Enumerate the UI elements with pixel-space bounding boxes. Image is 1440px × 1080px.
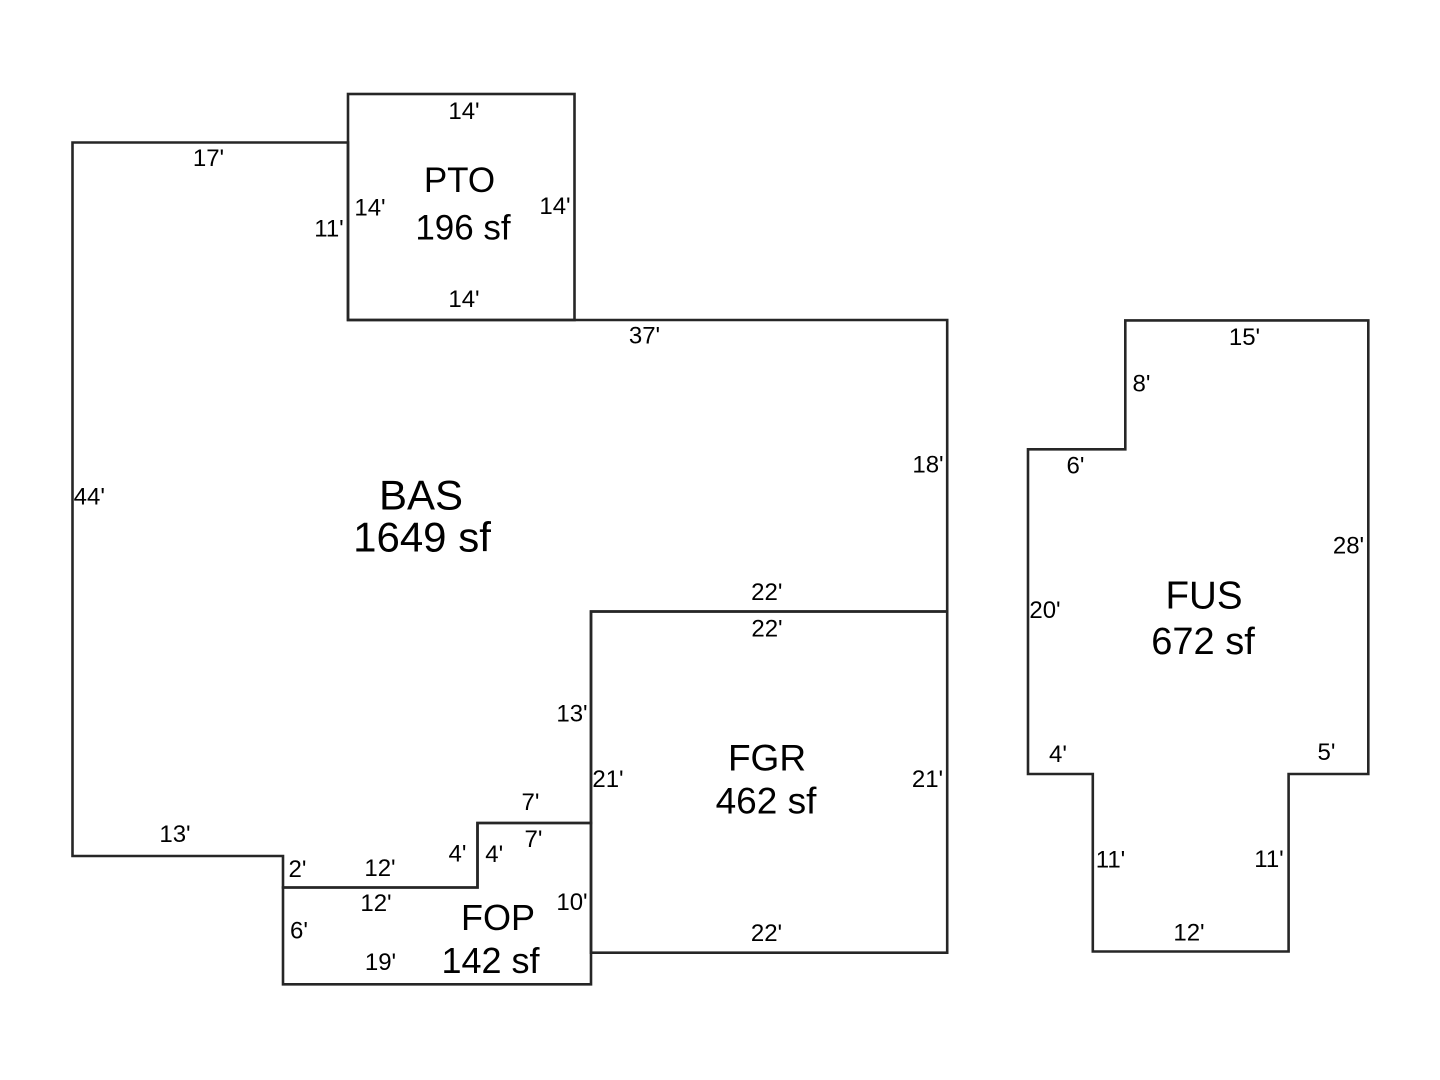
svg-text:13': 13' [556,701,587,728]
svg-text:PTO: PTO [424,161,495,200]
svg-text:196 sf: 196 sf [415,209,511,248]
svg-text:15': 15' [1229,324,1260,351]
svg-text:14': 14' [448,286,479,313]
svg-text:21': 21' [592,766,623,793]
svg-text:17': 17' [193,145,224,172]
svg-text:12': 12' [364,855,395,882]
svg-text:142 sf: 142 sf [441,940,540,981]
PTO area outline [348,94,575,320]
svg-text:8': 8' [1133,371,1151,398]
svg-text:22': 22' [751,579,782,606]
svg-text:FUS: FUS [1166,575,1243,618]
svg-text:FGR: FGR [728,738,806,779]
BAS area outline [73,143,948,888]
svg-text:462 sf: 462 sf [716,781,818,822]
svg-text:37': 37' [629,323,660,350]
svg-text:5': 5' [1318,739,1336,766]
FGR area outline [591,612,947,953]
svg-text:FOP: FOP [461,897,535,938]
svg-text:672 sf: 672 sf [1151,621,1255,663]
svg-text:11': 11' [314,216,344,243]
svg-text:13': 13' [159,821,190,848]
svg-text:22': 22' [751,920,782,947]
svg-text:11': 11' [1096,847,1126,874]
svg-text:14': 14' [354,195,385,222]
svg-text:21': 21' [912,766,943,793]
svg-text:6': 6' [1067,453,1085,480]
svg-text:19': 19' [365,949,396,976]
svg-text:44': 44' [74,484,105,511]
svg-text:11': 11' [1254,846,1284,873]
svg-text:20': 20' [1029,597,1060,624]
svg-text:4': 4' [485,841,503,868]
FOP area outline [283,823,591,984]
svg-text:2': 2' [289,856,307,883]
svg-text:14': 14' [539,193,570,220]
svg-text:22': 22' [751,615,782,642]
svg-text:6': 6' [290,918,308,945]
svg-text:7': 7' [525,826,543,853]
svg-text:12': 12' [1173,920,1204,947]
svg-text:14': 14' [448,98,479,125]
svg-text:1649 sf: 1649 sf [353,514,491,561]
svg-text:7': 7' [522,789,540,816]
svg-text:BAS: BAS [379,472,463,519]
FUS area outline [1028,320,1368,951]
svg-text:12': 12' [360,890,391,917]
svg-text:10': 10' [556,889,587,916]
svg-text:28': 28' [1333,533,1364,560]
svg-text:4': 4' [1049,741,1067,768]
svg-text:4': 4' [449,841,467,868]
svg-text:18': 18' [912,452,943,479]
